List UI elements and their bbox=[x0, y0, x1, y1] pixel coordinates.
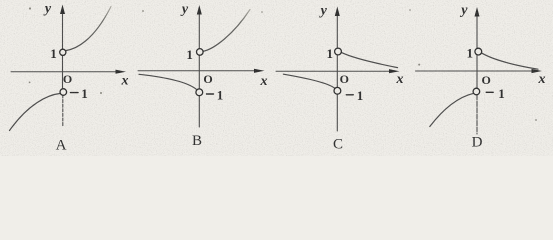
graph C bbox=[276, 4, 404, 153]
svg-text:O: O bbox=[203, 72, 212, 86]
svg-text:1: 1 bbox=[498, 86, 505, 101]
lower curve bbox=[10, 93, 61, 130]
svg-text:y: y bbox=[43, 2, 52, 17]
svg-text:O: O bbox=[340, 72, 349, 86]
svg-text:x: x bbox=[396, 72, 404, 87]
upper curve bbox=[66, 7, 111, 51]
svg-text:1: 1 bbox=[326, 46, 333, 61]
label -1 bbox=[207, 93, 214, 95]
svg-text:1: 1 bbox=[50, 46, 57, 61]
open circle (0,-1) bbox=[473, 88, 480, 95]
svg-text:1: 1 bbox=[466, 45, 473, 60]
open circle (0,1) bbox=[197, 49, 204, 56]
left curve bbox=[283, 74, 334, 88]
svg-text:B: B bbox=[192, 133, 202, 149]
right curve bbox=[342, 53, 398, 68]
svg-text:1: 1 bbox=[217, 87, 224, 102]
grain overlay bbox=[0, 0, 553, 156]
svg-text:x: x bbox=[260, 74, 268, 89]
y-axis bbox=[198, 11, 200, 89]
svg-text:O: O bbox=[63, 72, 72, 86]
open circle (0,-1) bbox=[196, 89, 203, 96]
open circle (0,1) bbox=[335, 48, 342, 55]
svg-text:1: 1 bbox=[81, 86, 88, 101]
svg-text:x: x bbox=[121, 73, 129, 88]
y-axis bbox=[476, 13, 478, 89]
label -1 bbox=[71, 92, 79, 94]
scan speckles bbox=[29, 7, 537, 121]
x-axis bbox=[138, 70, 257, 72]
open circle (0,-1) bbox=[60, 89, 67, 96]
graph A bbox=[10, 2, 129, 154]
label -1 bbox=[486, 91, 493, 93]
svg-text:y: y bbox=[180, 2, 189, 17]
label -1 bbox=[346, 94, 353, 96]
x-axis bbox=[11, 71, 118, 73]
svg-text:D: D bbox=[472, 135, 483, 151]
x-axis bbox=[276, 70, 392, 72]
open circle (0,1) bbox=[475, 48, 482, 55]
svg-text:O: O bbox=[482, 73, 491, 87]
open circle (0,-1) bbox=[334, 87, 341, 94]
x-axis bbox=[416, 70, 535, 72]
y-axis bbox=[62, 10, 64, 89]
graph D bbox=[416, 3, 546, 151]
y-axis bbox=[336, 12, 338, 88]
svg-text:C: C bbox=[333, 136, 343, 152]
svg-text:y: y bbox=[459, 3, 468, 18]
graph B bbox=[138, 2, 268, 149]
svg-text:1: 1 bbox=[357, 88, 364, 103]
svg-text:y: y bbox=[319, 4, 328, 19]
svg-text:x: x bbox=[538, 72, 546, 87]
lower curve bbox=[430, 93, 474, 126]
left curve bbox=[139, 74, 196, 89]
right curve bbox=[482, 53, 538, 69]
svg-text:A: A bbox=[56, 137, 67, 153]
svg-text:1: 1 bbox=[186, 47, 193, 62]
open circle (0,1) bbox=[60, 49, 66, 55]
upper curve bbox=[203, 10, 250, 52]
